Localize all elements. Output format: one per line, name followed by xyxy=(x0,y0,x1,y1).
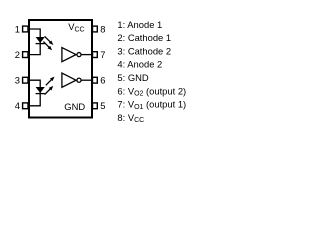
svg-text:8: VCC: 8: VCC xyxy=(117,112,144,124)
svg-text:2: Cathode 1: 2: Cathode 1 xyxy=(117,32,171,43)
svg-text:5: 5 xyxy=(100,100,105,111)
svg-text:7: VO1 (output 1): 7: VO1 (output 1) xyxy=(117,99,186,111)
svg-text:8: 8 xyxy=(100,23,105,34)
svg-text:1: 1 xyxy=(15,23,20,34)
svg-text:4: 4 xyxy=(15,100,20,111)
svg-text:3: 3 xyxy=(15,75,20,86)
svg-text:GND: GND xyxy=(64,101,85,112)
svg-text:6: 6 xyxy=(100,75,105,86)
svg-text:6: VO2 (output 2): 6: VO2 (output 2) xyxy=(117,85,186,97)
svg-text:7: 7 xyxy=(100,49,105,60)
svg-text:3: Cathode 2: 3: Cathode 2 xyxy=(117,45,171,56)
svg-text:4: Anode 2: 4: Anode 2 xyxy=(117,59,162,70)
svg-text:5: GND: 5: GND xyxy=(117,72,148,83)
svg-text:2: 2 xyxy=(15,49,20,60)
svg-text:1: Anode 1: 1: Anode 1 xyxy=(117,19,162,30)
